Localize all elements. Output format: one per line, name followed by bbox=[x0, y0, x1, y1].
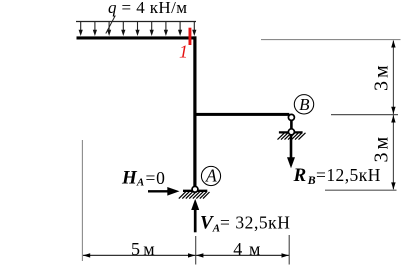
svg-text:q = 4 кН/м: q = 4 кН/м bbox=[108, 0, 187, 17]
svg-text:A: A bbox=[136, 176, 144, 188]
svg-text:=12,5кН: =12,5кН bbox=[316, 165, 381, 185]
svg-text:A: A bbox=[212, 223, 220, 235]
svg-text:R: R bbox=[293, 165, 307, 186]
svg-text:=0: =0 bbox=[146, 168, 166, 188]
svg-text:B: B bbox=[307, 173, 316, 187]
svg-text:3м: 3м bbox=[371, 62, 393, 91]
svg-text:5м: 5м bbox=[131, 239, 155, 259]
svg-text:= 32,5кН: = 32,5кН bbox=[220, 213, 290, 233]
svg-text:B: B bbox=[299, 95, 310, 114]
svg-text:1: 1 bbox=[179, 42, 188, 62]
svg-text:3м: 3м bbox=[371, 134, 393, 163]
svg-text:H: H bbox=[121, 168, 138, 189]
svg-text:A: A bbox=[205, 165, 217, 185]
